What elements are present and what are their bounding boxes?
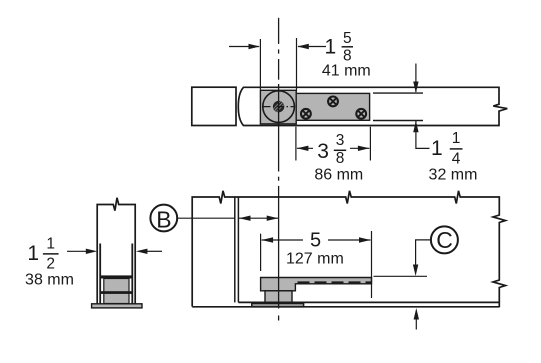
svg-text:3: 3 xyxy=(336,132,345,149)
screw S3 (plate bottom-right) xyxy=(356,109,366,119)
channel inner line left xyxy=(99,244,101,304)
dim 1-5/8 left extension line xyxy=(259,39,261,90)
svg-text:38 mm: 38 mm xyxy=(25,272,74,289)
mortise bottom line (plan) xyxy=(373,120,423,122)
svg-text:4: 4 xyxy=(452,150,461,167)
mortise top line (plan) xyxy=(373,92,423,94)
arm top extension line xyxy=(374,275,428,277)
floor top line xyxy=(238,301,499,303)
screw S1 (plate bottom-left) xyxy=(301,109,311,119)
svg-text:3: 3 xyxy=(317,140,329,163)
dim 5 line with arrows xyxy=(262,239,303,241)
svg-text:1: 1 xyxy=(452,130,461,147)
dim 1-5/8 left arrow xyxy=(229,46,259,48)
C leader with down arrow xyxy=(416,240,431,265)
frame block (plan) xyxy=(192,87,236,125)
dim 3-3/8 left extension line xyxy=(295,127,297,161)
svg-text:1: 1 xyxy=(325,35,337,58)
floor bottom line xyxy=(192,306,499,308)
label C circle xyxy=(431,226,458,253)
base plate (edge view) xyxy=(92,304,142,308)
pivot center screw xyxy=(273,101,284,112)
dim 3-3/8 right extension line xyxy=(369,127,371,161)
spindle below block xyxy=(265,291,292,303)
insert divider band xyxy=(100,291,133,294)
svg-text:5: 5 xyxy=(310,229,321,251)
dim 1-5/8 right extension line xyxy=(296,38,298,92)
door leaf (plan) outline with rounded leading edge and break at right end xyxy=(238,87,507,125)
screw S2 (plate top-middle) xyxy=(328,97,338,107)
svg-text:32 mm: 32 mm xyxy=(429,167,478,184)
dim 5 left extension line xyxy=(260,234,262,271)
base plate (elevation) xyxy=(252,303,304,306)
svg-text:1: 1 xyxy=(431,137,443,160)
dim 1-1/2 left arrow xyxy=(67,250,87,252)
text 1 5/8 xyxy=(325,30,353,65)
svg-text:41 mm: 41 mm xyxy=(322,63,371,80)
dim 1-1/2 right arrow xyxy=(146,250,162,252)
insert body xyxy=(104,279,129,304)
dim 1-5/8 right arrow xyxy=(298,46,326,48)
svg-text:2: 2 xyxy=(46,256,55,273)
insert top cap xyxy=(100,275,133,278)
svg-text:1: 1 xyxy=(27,242,39,265)
label B circle xyxy=(150,205,177,232)
channel inner line right xyxy=(131,244,133,304)
dim 5 right extension line xyxy=(371,231,373,298)
svg-text:86 mm: 86 mm xyxy=(314,167,363,184)
text 1 1/2 xyxy=(27,236,58,273)
dim 1-1/4 upper arrow (down) xyxy=(415,64,417,93)
B leader line xyxy=(177,217,235,219)
svg-text:C: C xyxy=(436,227,453,253)
door bar outline with top break xyxy=(97,198,135,304)
svg-text:127 mm: 127 mm xyxy=(286,251,344,268)
text 3 3/8 xyxy=(317,132,346,167)
svg-text:5: 5 xyxy=(343,30,352,47)
outline: left edge, top edge with breaks, right edge with breaks xyxy=(192,191,505,307)
svg-text:1: 1 xyxy=(46,236,55,253)
bottom arm assembly: arm + block xyxy=(261,278,372,291)
text 1 1/4 xyxy=(431,130,462,167)
pivot horizontal dash-dot crosshair xyxy=(264,106,294,108)
dim 1-1/4 lower arrow (up) with leader xyxy=(416,121,430,149)
svg-text:B: B xyxy=(156,206,171,232)
dim 3-3/8 line with arrows xyxy=(297,147,313,149)
pivot circle xyxy=(263,91,295,123)
svg-text:8: 8 xyxy=(336,150,345,167)
top arm plate (plan) xyxy=(296,93,369,120)
door edge double line xyxy=(234,197,236,302)
B dimension double arrow xyxy=(239,217,278,219)
hidden dashed line in arm xyxy=(298,281,372,283)
main vertical centerline (pivot axis), dash-dot segments xyxy=(278,18,280,321)
bottom up arrow xyxy=(415,318,417,330)
pivot square plate (plan) xyxy=(260,90,296,124)
